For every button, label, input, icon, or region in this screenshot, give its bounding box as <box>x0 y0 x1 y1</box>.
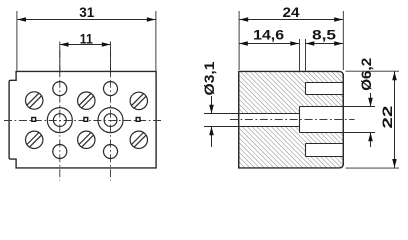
vertical centerline left hole <box>59 50 61 181</box>
square keyway right <box>136 118 140 122</box>
svg-text:8,5: 8,5 <box>312 26 336 42</box>
large hole right inner <box>104 114 117 127</box>
dimension Ø3,1 leader line and arrows <box>211 96 213 113</box>
bottom blind hole outline <box>306 144 344 157</box>
bottom blind hole cutout <box>306 144 343 157</box>
dimension 14,6 extension line <box>299 39 301 71</box>
svg-text:Ø6,2: Ø6,2 <box>358 58 374 91</box>
slotted hole B (top row middle) <box>78 92 95 109</box>
top blind hole outline <box>306 83 344 95</box>
large hole left outer <box>47 108 72 133</box>
central bore Ø3,1 cutout <box>239 114 299 127</box>
square keyway middle <box>84 118 88 122</box>
slotted hole E (bottom row middle) <box>78 131 95 148</box>
dimension Ø3,1 ticks <box>204 113 239 115</box>
housing body outline with left flange <box>9 71 156 167</box>
svg-text:14,6: 14,6 <box>253 26 284 42</box>
large hole left inner <box>53 114 66 127</box>
large hole right outer <box>98 108 123 133</box>
svg-text:24: 24 <box>283 4 300 20</box>
horizontal centerline <box>4 120 162 122</box>
small hole bottom-right <box>104 145 118 159</box>
slotted hole C (top row right) <box>130 92 147 109</box>
dimension Ø6,2 leader line and arrows <box>370 93 372 106</box>
dimension 11 extension lines <box>59 42 61 77</box>
small hole top-right <box>104 82 118 96</box>
dimension 22 extension lines <box>346 70 400 72</box>
small hole bottom-left <box>53 145 67 159</box>
slotted hole D (bottom row left) <box>26 131 43 148</box>
slotted hole F (bottom row right) <box>130 131 147 148</box>
top blind hole cutout <box>306 83 343 95</box>
dimension 24 line <box>240 19 343 21</box>
central bore outline <box>239 114 300 127</box>
dimension Ø6,2 ticks <box>344 106 375 108</box>
square keyway left <box>32 118 36 122</box>
svg-text:22: 22 <box>379 105 395 128</box>
dimension 31 extension lines <box>16 11 18 71</box>
dimension 8,5 extension line <box>305 39 307 71</box>
dimension 31 line <box>17 19 155 21</box>
svg-text:11: 11 <box>80 30 93 46</box>
left face line <box>238 71 240 167</box>
hatched section body <box>239 71 344 167</box>
dimension 14,6 line <box>239 43 299 45</box>
small hole top-left <box>53 82 67 96</box>
right face line <box>342 74 344 165</box>
section centerline <box>230 119 355 121</box>
dimension 24 extension lines <box>238 11 240 70</box>
slotted hole A (top row left) <box>26 92 43 109</box>
dimension 11 line <box>60 44 111 46</box>
counterbore Ø6,2 cutout <box>300 107 343 133</box>
vertical centerline right hole <box>110 50 112 181</box>
svg-text:31: 31 <box>79 4 94 20</box>
svg-text:Ø3,1: Ø3,1 <box>201 61 217 95</box>
dimension 22 line <box>394 72 396 168</box>
counterbore outline <box>300 107 344 133</box>
dimension 8,5 line <box>306 43 343 45</box>
